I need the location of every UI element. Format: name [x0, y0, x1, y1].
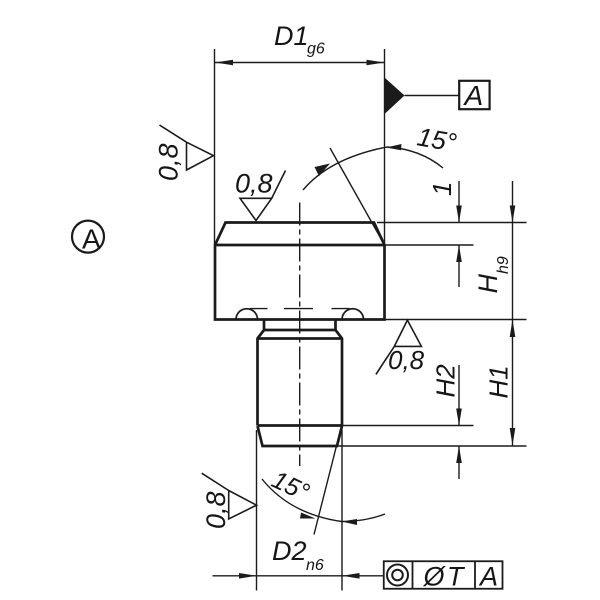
svg-text:D1: D1	[274, 21, 309, 51]
neck under head	[258, 320, 343, 426]
flare bottom edge	[258, 337, 343, 340]
dim 1 stems	[458, 181, 460, 223]
centerline	[299, 203, 301, 467]
svg-text:g6: g6	[307, 41, 325, 58]
roughness symbol top	[240, 171, 286, 221]
svg-text:D2: D2	[272, 536, 307, 566]
head bottom extension right	[385, 319, 527, 321]
D1 extension line left	[214, 49, 216, 245]
shank bottom chamfer	[258, 426, 343, 446]
groove hidden line	[250, 308, 268, 310]
concentricity symbol	[387, 565, 408, 586]
part bottom extension right	[337, 445, 527, 447]
D1 dimension line	[215, 62, 385, 64]
svg-text:n6: n6	[306, 557, 324, 574]
D1 extension line right	[384, 49, 386, 245]
svg-text:H1: H1	[484, 365, 514, 398]
top face extension line right	[377, 222, 527, 224]
shank chamfer extension right	[342, 425, 474, 427]
svg-text:0,8: 0,8	[154, 143, 184, 181]
D2 extension lines	[256, 430, 258, 591]
angle arc bottom	[262, 479, 385, 522]
H/H1 dimension stem	[512, 181, 514, 446]
chamfer base extension right	[385, 244, 474, 246]
groove relief arc right	[342, 309, 364, 320]
chamfer slant extension top	[330, 148, 385, 245]
svg-text:T: T	[447, 562, 466, 592]
tolerance frame	[384, 561, 503, 589]
roughness symbol left	[160, 125, 214, 170]
svg-text:A: A	[478, 562, 498, 592]
datum box	[459, 81, 489, 109]
chamfer slant extension bottom	[314, 428, 341, 535]
datum triangle	[385, 78, 405, 115]
roughness symbol neck	[376, 320, 422, 374]
svg-text:Ø: Ø	[423, 562, 447, 592]
circled A	[72, 221, 104, 253]
svg-text:1: 1	[427, 182, 457, 196]
D2 dimension line	[213, 575, 384, 577]
groove relief arc left	[236, 309, 258, 320]
head chamfer base line	[215, 244, 385, 247]
datum leader	[405, 95, 460, 97]
svg-text:A: A	[463, 80, 484, 111]
svg-text:0,8: 0,8	[388, 345, 425, 375]
neck bottom edge	[264, 329, 336, 332]
svg-text:A: A	[82, 224, 101, 255]
svg-text:0,8: 0,8	[235, 169, 273, 199]
shank chamfer line	[258, 424, 343, 427]
svg-text:H2: H2	[431, 364, 461, 398]
H2 stems	[458, 365, 460, 426]
part head outline	[215, 223, 385, 320]
angle arc top	[303, 147, 443, 190]
svg-text:0,8: 0,8	[201, 491, 231, 529]
roughness symbol bottom left	[202, 473, 257, 519]
